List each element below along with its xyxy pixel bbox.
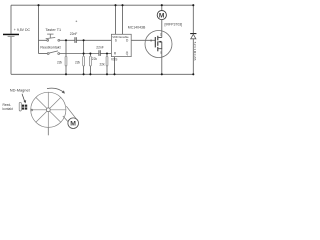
svg-text:5ZV3MCZB: 5ZV3MCZB: [193, 42, 197, 61]
svg-text:[IRFP3703]: [IRFP3703]: [165, 23, 183, 27]
rim bolt: [31, 109, 33, 111]
svg-text:ND-Magnet: ND-Magnet: [10, 88, 31, 93]
belt line lower: [63, 116, 69, 122]
node dots bottom rail: [65, 73, 194, 75]
wire IC VSS to bottom rail: [114, 57, 116, 75]
svg-text:VSS: VSS: [111, 57, 117, 61]
wire top rail: [11, 4, 193, 6]
rotation arrow: [47, 88, 65, 94]
gate bar: [154, 37, 156, 47]
channel dashes: [157, 36, 159, 41]
wire right side upper: [192, 5, 194, 33]
capacitor C1: [70, 32, 78, 43]
ND magnet block: [22, 104, 28, 109]
drain stub: [158, 37, 162, 39]
reed tube: [19, 102, 21, 111]
svg-text:22nF: 22nF: [70, 32, 78, 36]
MOSFET Q1 IRFP3703: [145, 23, 182, 58]
wire resistor R3 branch: [89, 54, 91, 75]
wire IC Enable feed: [122, 5, 124, 34]
resistor R4: [100, 56, 108, 66]
wire taster row right to cap C1: [60, 39, 75, 41]
wheel hub: [46, 108, 50, 112]
wire motor to MOSFET drain: [161, 20, 163, 38]
node dots signal wires: [65, 39, 108, 54]
svg-text:M: M: [159, 13, 165, 20]
svg-text:M: M: [70, 121, 76, 128]
svg-text:MC14043B: MC14043B: [128, 26, 146, 30]
svg-text:R: R: [114, 52, 117, 56]
wire bottom rail: [11, 73, 193, 75]
wheel rim: [31, 92, 66, 127]
svg-text:22k: 22k: [75, 60, 81, 64]
wire reed row right to IC R input: [100, 53, 111, 55]
node dots top rail: [37, 4, 194, 6]
wire branch vertical from top rail to switches: [38, 5, 40, 53]
svg-text:22k: 22k: [57, 60, 63, 64]
wire resistor R4 branch: [106, 54, 108, 75]
wire left side lower: [10, 37, 12, 75]
source join: [158, 42, 162, 49]
svg-text:22nF: 22nF: [96, 45, 104, 49]
wheel axle: [47, 128, 49, 136]
svg-text:Taster T1: Taster T1: [45, 28, 61, 32]
resistor R1: [57, 56, 67, 66]
resistor R3: [90, 56, 98, 66]
wire IC output to MOSFET gate: [131, 39, 155, 41]
body stub: [159, 41, 162, 43]
wire right side lower: [192, 39, 194, 75]
taster T1: [45, 28, 61, 41]
motor pulley M: [68, 118, 79, 129]
svg-text:S: S: [115, 38, 117, 42]
diode D1 freewheel: [190, 33, 197, 61]
wire taster row left: [39, 39, 47, 41]
wire drop from S node to reed row: [83, 40, 85, 53]
svg-text:kontakt: kontakt: [3, 107, 13, 111]
svg-text:Q̅: Q̅: [126, 52, 129, 56]
wheel spokes: [31, 92, 67, 128]
wire reed row left: [39, 53, 48, 55]
motor M1: [157, 11, 166, 20]
svg-text:Reedkontakt: Reedkontakt: [40, 45, 60, 49]
IC U1 MC14043B latch: [111, 26, 146, 62]
svg-text:22k: 22k: [100, 62, 106, 66]
wire resistor R2 branch: [83, 54, 85, 75]
svg-text:22k: 22k: [92, 57, 98, 61]
wire MOSFET source to bottom rail: [161, 49, 163, 75]
resistor R2: [75, 56, 85, 66]
wire left side upper: [10, 5, 12, 34]
battery B1: [3, 28, 31, 37]
wire cap C1 to IC S input: [76, 39, 111, 41]
svg-text:S: S: [160, 50, 162, 54]
capacitor C2: [96, 45, 104, 56]
wire IC VDD feed: [115, 5, 117, 34]
wire resistor R1 branch: [65, 40, 67, 74]
belt line upper: [66, 106, 78, 121]
wire motor branch from rail: [161, 5, 163, 11]
svg-text:D: D: [126, 38, 129, 42]
svg-text:D: D: [160, 32, 162, 36]
ND magnet pointer arrow: [22, 94, 26, 104]
node A faint plus mark: [76, 21, 78, 23]
wire reed row middle: [60, 53, 99, 55]
body arrow: [158, 41, 161, 43]
reed contact switch: [40, 45, 60, 54]
svg-text:+ 9,5V DC: + 9,5V DC: [14, 28, 31, 32]
